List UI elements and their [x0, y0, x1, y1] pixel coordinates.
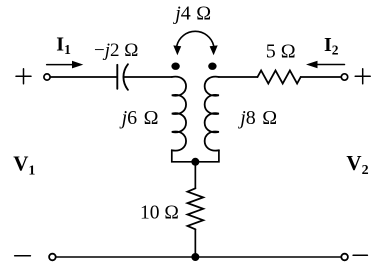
terminal circle top-right — [341, 74, 347, 80]
wire: top-left terminal to capacitor — [50, 76, 116, 78]
junction dot on bottom rail — [191, 253, 199, 261]
arrow I1 (current into port 1) — [47, 64, 73, 66]
svg-text:j8 Ω: j8 Ω — [237, 107, 277, 129]
plus sign top-left — [16, 69, 31, 84]
wire: junction to resistor 10 — [194, 162, 196, 189]
wire: right coil top to resistor 5 — [219, 76, 258, 78]
arrow I2 (current into port 2) — [317, 64, 345, 66]
wire: resistor 10 to bottom rail — [194, 229, 196, 257]
wire: capacitor to left coil top — [124, 76, 172, 78]
terminal circle top-left — [44, 74, 50, 80]
svg-text:V1: V1 — [13, 152, 35, 179]
junction dot under coils — [191, 158, 199, 166]
coupling arrowhead right — [210, 45, 218, 55]
resistor R 5ohm (horizontal zigzag) — [258, 71, 301, 84]
plus sign top-right — [355, 69, 370, 84]
capacitor -j2 (straight plate) — [116, 65, 118, 89]
wire: left coil bottom stub — [172, 150, 219, 162]
mutual coupling arc j4 — [177, 31, 214, 45]
minus sign bottom-left — [15, 255, 31, 257]
terminal circle bottom-right — [341, 254, 348, 261]
inductor L1 (j6) coil — [172, 77, 186, 151]
svg-text:−j2 Ω: −j2 Ω — [94, 40, 138, 61]
terminal circle bottom-left — [49, 254, 56, 261]
svg-text:j4 Ω: j4 Ω — [172, 2, 211, 24]
bottom rail wire — [56, 256, 341, 258]
svg-text:I2: I2 — [324, 34, 339, 58]
svg-text:10 Ω: 10 Ω — [140, 202, 179, 223]
svg-text:I1: I1 — [56, 33, 71, 57]
minus sign bottom-right — [353, 254, 367, 256]
coupling arrowhead left — [173, 45, 181, 55]
capacitor -j2 (curved plate) — [123, 64, 127, 90]
inductor L2 (j8) coil — [205, 77, 219, 151]
polarity dot right coil — [208, 62, 216, 69]
svg-text:j6 Ω: j6 Ω — [119, 107, 159, 129]
wire: resistor 5 to top-right terminal — [301, 76, 342, 78]
svg-text:V2: V2 — [346, 151, 368, 178]
polarity dot left coil — [171, 62, 179, 69]
resistor R 10ohm (vertical zigzag) — [188, 188, 204, 229]
svg-text:5 Ω: 5 Ω — [266, 40, 296, 62]
